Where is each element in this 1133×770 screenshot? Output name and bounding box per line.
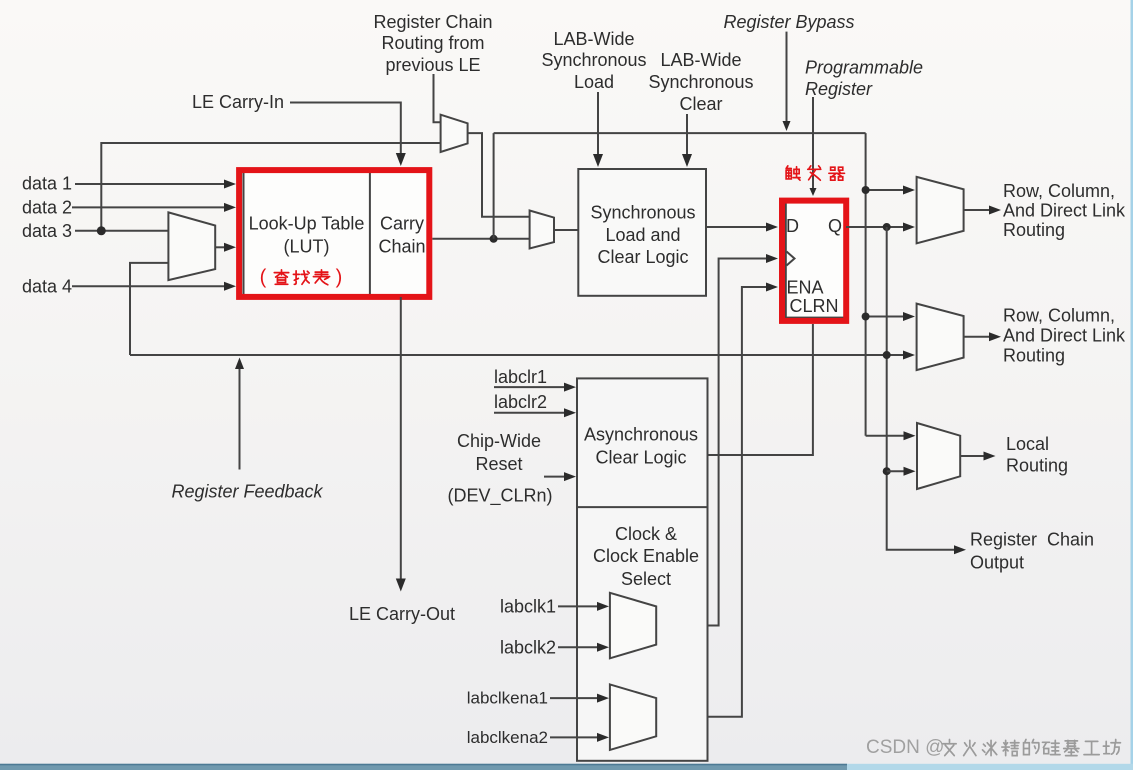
junction: Q tap [883, 223, 891, 231]
svg-text:Chip-Wide: Chip-Wide [457, 431, 541, 451]
box: Asynchronous Clear Logic and Clock Enable Select [577, 378, 708, 760]
wire: register chain mux output down to synchronous mux [468, 133, 530, 217]
svg-text:Clear Logic: Clear Logic [595, 448, 686, 468]
svg-text:Register: Register [805, 79, 873, 99]
wire: data mux output into LUT [215, 246, 224, 248]
svg-text:(LUT): (LUT) [284, 237, 330, 257]
box: Synchronous Load and Clear Logic [578, 169, 706, 296]
svg-text:Select: Select [621, 569, 671, 589]
svg-text:Synchronous: Synchronous [541, 50, 646, 70]
highlight: red box around LUT [239, 170, 429, 297]
mux: clock select mux [610, 593, 656, 659]
svg-text:Load: Load [574, 72, 614, 92]
wire: programmable register pointer down to flipflop [812, 97, 814, 188]
svg-text:Q: Q [828, 216, 842, 236]
svg-text:LAB-Wide: LAB-Wide [553, 29, 634, 49]
mux: synchronous input mux [530, 211, 554, 249]
wire: ENA line from enable mux up into flipflop [656, 287, 766, 717]
svg-text:Carry: Carry [380, 213, 424, 233]
junction: data 3 tap [97, 226, 106, 235]
wire: mux3 output [960, 455, 983, 457]
decorative: bottom progress bar rest [847, 764, 1133, 770]
svg-text:Row, Column,: Row, Column, [1003, 181, 1115, 201]
wire: LE carry-out down [400, 297, 402, 579]
wire: LUT/carry output to synchronous mux lower input [432, 238, 529, 240]
mux: clock enable select mux [610, 684, 656, 750]
junction: bypass tap on carry output [490, 235, 498, 243]
wire: register feedback line [130, 354, 903, 356]
svg-text:Output: Output [970, 553, 1024, 573]
node: 触发器 red annotation [786, 166, 800, 180]
wire: mux2 output [964, 336, 989, 338]
wire: Q riser down to register chain output [887, 227, 954, 550]
svg-text:Synchronous: Synchronous [648, 72, 753, 92]
wire: Register Bypass label arrow down to rail [786, 32, 788, 121]
svg-text:Register Chain: Register Chain [970, 530, 1094, 550]
svg-text:Register Bypass: Register Bypass [723, 12, 854, 32]
svg-text:labclr2: labclr2 [494, 392, 547, 412]
svg-text:Asynchronous: Asynchronous [584, 425, 698, 445]
svg-text:Register Chain: Register Chain [373, 12, 492, 32]
wire: bypass rail drop on right feeding output muxes [865, 133, 867, 436]
wire: data 3 riser to register chain mux input [101, 143, 440, 231]
wire: synchronous load arrow into box [597, 92, 599, 154]
svg-text:): ) [336, 267, 343, 289]
svg-text:Clear: Clear [679, 94, 722, 114]
svg-text:data 2: data 2 [22, 197, 72, 217]
wire: bypass riser [493, 133, 495, 239]
svg-text:D: D [786, 216, 799, 236]
svg-text:Clock &: Clock & [615, 524, 677, 544]
svg-text:labclkena2: labclkena2 [467, 728, 548, 747]
wire: Q output to first routing mux [846, 226, 903, 228]
svg-text:Programmable: Programmable [805, 58, 923, 78]
box: Look-Up Table and Carry Chain black box [244, 171, 430, 297]
svg-text:Routing: Routing [1006, 456, 1068, 476]
svg-text:data 3: data 3 [22, 221, 72, 241]
svg-text:data 4: data 4 [22, 276, 72, 296]
pin: clock triangle [787, 252, 795, 266]
wire: bypass into mux3 top [866, 435, 904, 437]
svg-text:Chain: Chain [378, 237, 425, 257]
wire: bypass into mux2 top [866, 316, 903, 318]
decorative: right blue edge [1131, 0, 1133, 770]
svg-text:data 1: data 1 [22, 173, 72, 193]
svg-text:Routing: Routing [1003, 346, 1065, 366]
wire: bypass into mux1 top [866, 189, 903, 191]
svg-text:labclkena1: labclkena1 [467, 689, 548, 708]
mux: data3/feedback input mux [168, 212, 215, 280]
mux: output mux 2 [917, 304, 964, 371]
svg-text:LE Carry-Out: LE Carry-Out [349, 604, 455, 624]
svg-text:Look-Up Table: Look-Up Table [249, 213, 365, 233]
svg-text:Synchronous: Synchronous [590, 203, 695, 223]
wire: sync mux output into box [554, 229, 578, 231]
wire: clock line from clock mux up into flipflop [656, 259, 766, 626]
wire: register feedback label arrow [239, 369, 241, 470]
junction: bypass tap mux1 [862, 186, 870, 194]
svg-text:And Direct Link: And Direct Link [1003, 201, 1126, 221]
svg-text:Clear Logic: Clear Logic [597, 247, 688, 267]
wire: synchronous clear arrow into box [686, 114, 688, 154]
svg-text:labclk1: labclk1 [500, 596, 556, 616]
mux: register chain input mux [441, 115, 468, 152]
svg-text:previous LE: previous LE [385, 55, 480, 75]
mux: output mux 3 local routing [917, 423, 960, 489]
wire: D input line [706, 226, 766, 228]
junction: local routing tap on Q riser [883, 467, 891, 475]
decorative: bottom progress bar played [0, 764, 847, 770]
svg-text:(: ( [260, 267, 267, 289]
svg-text:Load and: Load and [605, 225, 680, 245]
svg-text:LAB-Wide: LAB-Wide [660, 50, 741, 70]
highlight: red box around flipflop [782, 201, 846, 321]
wire: LUT / carry chain divider [369, 171, 371, 297]
wire: register chain routing from previous LE into mux [434, 74, 441, 122]
svg-text:Routing from: Routing from [381, 33, 484, 53]
wire: register feedback into data mux [130, 263, 168, 355]
svg-text:labclk2: labclk2 [500, 637, 556, 657]
svg-text:Local: Local [1006, 434, 1049, 454]
svg-text:Routing: Routing [1003, 220, 1065, 240]
wire: Q riser into mux3 bottom [887, 470, 904, 472]
svg-text:Row, Column,: Row, Column, [1003, 305, 1115, 325]
svg-text:And Direct Link: And Direct Link [1003, 326, 1126, 346]
wire: CLRN path from asynchronous clear logic [708, 324, 813, 455]
svg-text:Register Feedback: Register Feedback [171, 481, 323, 501]
flipflop: programmable register black box [786, 203, 845, 318]
svg-text:(DEV_CLRn): (DEV_CLRn) [447, 486, 552, 507]
svg-text:Clock Enable: Clock Enable [593, 546, 699, 566]
junction: feedback tap on Q riser [883, 351, 891, 359]
svg-text:LE Carry-In: LE Carry-In [192, 92, 284, 112]
svg-text:Reset: Reset [475, 454, 522, 474]
mux: output mux 1 [917, 177, 964, 243]
wire: mux1 output [964, 209, 989, 211]
wire: LE Carry-In feed down into LUT top [290, 103, 401, 154]
junction: bypass tap mux2 [862, 313, 870, 321]
wire: register bypass rail [494, 132, 866, 134]
svg-text:CLRN: CLRN [790, 296, 839, 316]
svg-text:labclr1: labclr1 [494, 367, 547, 387]
wire: divider between async and clock boxes [577, 506, 708, 508]
svg-text:ENA: ENA [787, 278, 824, 298]
svg-text:CSDN @: CSDN @ [866, 737, 944, 758]
